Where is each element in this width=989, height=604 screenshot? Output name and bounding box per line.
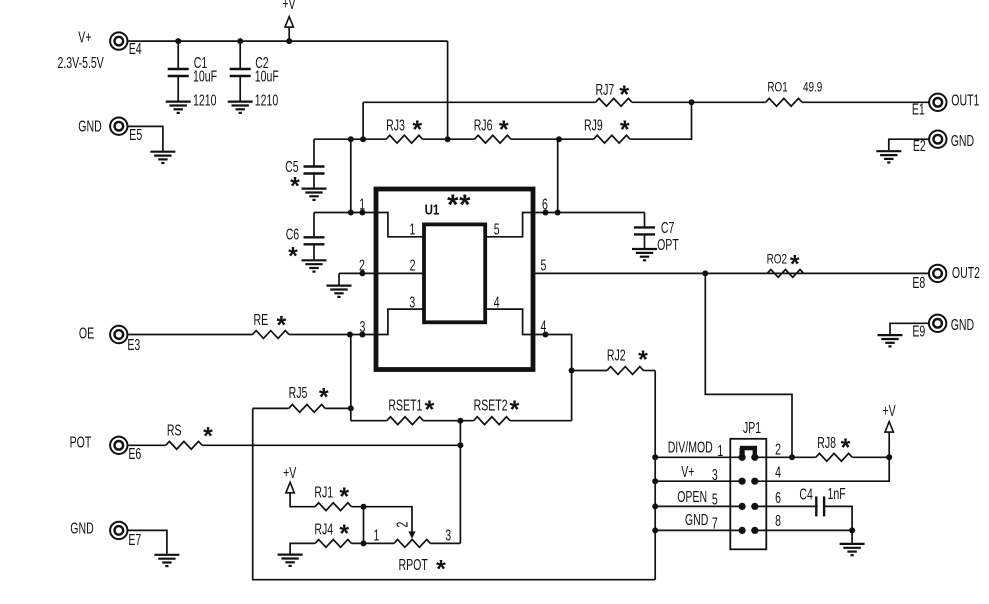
wire RSET row	[351, 420, 387, 422]
svg-text:7: 7	[712, 514, 718, 532]
wire E3 to RE	[128, 334, 252, 336]
svg-text:E1: E1	[912, 101, 925, 119]
resistor RO2	[767, 270, 804, 278]
svg-text:RJ4: RJ4	[314, 520, 333, 538]
wire RE to U1 pin3	[289, 334, 376, 336]
wire ground node drop	[851, 530, 853, 543]
svg-text:1: 1	[717, 442, 723, 460]
svg-text:C4: C4	[799, 486, 812, 504]
junction JP1 col row3	[652, 503, 658, 509]
svg-text:+V: +V	[283, 464, 296, 482]
svg-text:RJ2: RJ2	[607, 347, 626, 365]
ground RJ4	[278, 555, 303, 566]
junction JP1 col row4	[652, 527, 658, 533]
wire RJ3 to RJ6	[423, 138, 475, 140]
wire pin6 row	[533, 212, 645, 214]
svg-text:RPOT: RPOT	[399, 556, 428, 574]
resistor RO1 49.9	[766, 98, 803, 106]
svg-text:RE: RE	[254, 311, 269, 329]
wire RSET node drop to RPOT	[459, 421, 461, 544]
svg-text:RSET2: RSET2	[474, 396, 508, 414]
junction pin6 riser node	[556, 136, 562, 142]
svg-text:10uF: 10uF	[193, 67, 217, 85]
junction RJ4 node	[361, 540, 367, 546]
svg-text:*: *	[290, 173, 300, 201]
JP1 pin dots row 2	[739, 478, 746, 485]
svg-text:E8: E8	[912, 274, 925, 292]
svg-text:1: 1	[409, 220, 415, 238]
svg-text:*: *	[447, 189, 459, 221]
terminal E2 GND	[929, 131, 946, 148]
wire RJ1 to wiper	[352, 507, 413, 532]
svg-text:+V: +V	[883, 402, 896, 420]
svg-text:3: 3	[360, 318, 366, 336]
U1 internal wire pin3	[376, 309, 424, 334]
ground C2	[228, 102, 253, 113]
junction RJ3 row at x363	[360, 136, 366, 142]
wire E7 to ground	[128, 530, 167, 553]
wire E9 to ground	[890, 323, 928, 334]
svg-text:2: 2	[410, 256, 416, 274]
junction on rail at C2	[237, 38, 243, 44]
wire C4 to ground node	[824, 506, 852, 530]
svg-text:C6: C6	[286, 225, 299, 243]
wire RJ7 to RO1 node	[632, 101, 766, 103]
terminal E1 OUT1	[929, 94, 946, 111]
svg-text:E7: E7	[128, 531, 141, 549]
wire pin4 row	[533, 335, 572, 421]
junction RSET node	[457, 418, 463, 424]
junction pin1 row x350	[348, 210, 354, 216]
svg-text:*: *	[619, 81, 629, 109]
capacitor C4	[816, 496, 824, 516]
svg-text:*: *	[620, 116, 630, 144]
svg-text:E4: E4	[129, 40, 142, 58]
svg-text:*: *	[499, 116, 509, 144]
svg-text:GND: GND	[951, 316, 974, 334]
resistor RSET1	[387, 417, 424, 425]
wire RJ4 to RPOT	[352, 542, 394, 544]
svg-text:*: *	[638, 346, 648, 374]
capacitor C5	[313, 139, 315, 166]
wire RPOT to RSET drop	[430, 542, 460, 544]
wire E5 to ground	[128, 126, 163, 150]
pin dot U1 pin3	[359, 332, 365, 338]
wire bottom loop	[253, 408, 656, 579]
capacitor C2	[239, 41, 241, 69]
terminal E7 GND	[110, 522, 127, 539]
ground E7	[154, 555, 179, 566]
svg-text:RJ5: RJ5	[289, 384, 308, 402]
svg-text:2.3V-5.5V: 2.3V-5.5V	[58, 54, 104, 72]
svg-text:RJ6: RJ6	[474, 117, 493, 135]
terminal E8 OUT2	[929, 265, 946, 282]
ground E2	[876, 151, 901, 162]
resistor RS	[166, 441, 203, 449]
svg-text:5: 5	[494, 220, 500, 238]
svg-text:V+: V+	[681, 463, 694, 481]
power +V top	[288, 27, 290, 41]
svg-text:2: 2	[359, 257, 365, 275]
RPOT wiper arrow	[408, 531, 415, 538]
svg-text:49.9: 49.9	[803, 80, 822, 95]
wire V+ rail drop to RJ3 node	[447, 41, 449, 139]
resistor RJ4	[315, 540, 352, 548]
svg-text:OUT1: OUT1	[951, 92, 979, 110]
svg-text:4: 4	[775, 464, 781, 482]
svg-text:E6: E6	[128, 445, 141, 463]
wire E2 to ground	[889, 139, 929, 150]
svg-text:OE: OE	[79, 324, 94, 342]
U1 internal wire pin4	[485, 309, 533, 334]
svg-text:*: *	[319, 384, 329, 412]
wire pin5 row OUT2	[533, 272, 929, 274]
wire JP1 row3 right to C4	[755, 505, 818, 507]
svg-text:OUT2: OUT2	[952, 264, 980, 282]
svg-text:3: 3	[409, 293, 415, 311]
wire RJ9 to RJ7 right riser	[630, 102, 691, 139]
potentiometer RPOT	[394, 540, 431, 548]
terminal E3 OE	[110, 326, 127, 343]
junction OUT2 branch	[702, 270, 708, 276]
wire JP1 row2 left V+	[655, 480, 742, 482]
wire RSET1 to RSET2	[423, 420, 473, 422]
junction RJ5 node	[348, 405, 354, 411]
U1 internal wire pin1	[376, 213, 424, 237]
junction pin6 riser	[555, 210, 561, 216]
junction RJ2 branch	[569, 368, 575, 374]
junction JP1 col row1	[652, 454, 658, 460]
capacitor C6	[313, 213, 315, 238]
svg-text:RJ9: RJ9	[584, 117, 603, 135]
svg-text:3: 3	[712, 466, 718, 484]
junction C4 ground node	[849, 527, 855, 533]
U1 inner box	[424, 224, 485, 322]
wire JP1 row1 left DIV/MOD	[655, 456, 742, 458]
svg-text:V+: V+	[78, 29, 91, 47]
wire JP1 row1 right to RJ8	[755, 456, 816, 458]
svg-text:*: *	[790, 251, 800, 279]
svg-text:E3: E3	[127, 336, 140, 354]
junction on rail at C1	[175, 38, 181, 44]
wire JP1 row4 left GND	[655, 529, 742, 531]
junction RO1 node	[689, 99, 695, 105]
wire RJ6 to RJ9	[511, 138, 594, 140]
svg-text:GND: GND	[951, 132, 974, 150]
wire RJ3 row from C5	[314, 138, 386, 140]
capacitor C7	[644, 213, 646, 228]
pin dot U1 pin4	[543, 332, 549, 338]
svg-text:JP1: JP1	[743, 419, 761, 437]
ground E9	[878, 335, 903, 346]
ground C5	[302, 189, 327, 200]
svg-text:*: *	[339, 520, 349, 548]
wire +V to RJ1	[290, 493, 315, 507]
ground C6	[302, 260, 327, 271]
resistor RJ2	[607, 367, 644, 375]
svg-text:GND: GND	[78, 118, 101, 136]
wire RJ5 row	[253, 407, 289, 409]
pin dot U1 pin2	[359, 270, 365, 276]
junction POT row	[457, 442, 463, 448]
svg-text:DIV/MOD: DIV/MOD	[668, 438, 713, 456]
svg-text:2: 2	[393, 522, 411, 528]
svg-text:RO1: RO1	[767, 80, 787, 95]
svg-text:*: *	[459, 189, 471, 221]
connector JP1 box	[730, 439, 766, 550]
wire RO1 to E1	[802, 101, 929, 103]
wire RJ1-RJ4 link	[363, 507, 365, 544]
wire RS to RSET node drop	[202, 444, 460, 446]
wire pin2 row	[339, 272, 424, 274]
svg-text:POT: POT	[70, 434, 92, 452]
svg-text:RJ7: RJ7	[596, 81, 615, 99]
wire riser pin6 to RJ9 row	[557, 139, 559, 212]
svg-text:RJ3: RJ3	[386, 117, 405, 135]
resistor RJ3	[386, 135, 423, 143]
jumper on JP1 pins 1-2	[740, 446, 757, 457]
svg-text:8: 8	[775, 512, 781, 530]
wire RJ8 to +V node	[852, 456, 889, 458]
wire RJ2 wiring	[572, 370, 607, 372]
terminal E9 GND	[929, 315, 946, 332]
svg-text:1: 1	[374, 526, 380, 544]
svg-text:OPEN: OPEN	[677, 488, 707, 506]
junction RJ3 row at x350	[348, 136, 354, 142]
svg-text:2: 2	[775, 441, 781, 459]
resistor RJ1	[315, 503, 352, 511]
ground C7	[632, 249, 657, 260]
wire pin2 to ground	[338, 273, 340, 284]
ground C4	[840, 544, 865, 555]
svg-text:RJ1: RJ1	[314, 483, 333, 501]
wire E6 to RS	[128, 444, 165, 446]
wire OUT2 branch to JP1 pin2	[705, 273, 792, 457]
resistor RSET2	[474, 417, 511, 425]
JP1 pin dots row 3	[739, 503, 746, 510]
svg-text:*: *	[841, 434, 851, 462]
svg-text:6: 6	[775, 489, 781, 507]
U1 internal wire pin5	[485, 213, 533, 237]
svg-text:*: *	[339, 483, 349, 511]
wire RJ7 row	[363, 101, 595, 103]
ground E5	[150, 152, 175, 163]
junction on rail at +V	[286, 38, 292, 44]
resistor RJ9	[594, 135, 631, 143]
svg-text:+V: +V	[282, 0, 295, 12]
capacitor C1	[177, 41, 179, 69]
svg-text:10uF: 10uF	[255, 67, 279, 85]
svg-text:RS: RS	[167, 422, 182, 440]
wire +V node to JP1 pin4	[755, 457, 889, 481]
svg-text:3: 3	[445, 526, 451, 544]
svg-text:5: 5	[712, 491, 718, 509]
svg-text:1210: 1210	[255, 91, 278, 109]
pin dot U1 pin1	[359, 210, 365, 216]
wire JP1 row4 right	[755, 529, 852, 531]
svg-text:U1: U1	[425, 201, 440, 218]
wire RJ5 to riser	[325, 407, 351, 409]
ground C1	[166, 102, 191, 113]
JP1 pin dots row 4	[739, 527, 746, 534]
resistor RJ5	[289, 405, 326, 413]
wire riser pin3 to RJ5	[350, 335, 352, 421]
svg-text:RJ8: RJ8	[817, 434, 836, 452]
svg-text:4: 4	[494, 293, 500, 311]
junction JP1 col row2	[652, 478, 658, 484]
pin dot U1 pin6	[543, 210, 549, 216]
wire V+ rail from E4	[128, 40, 447, 42]
svg-text:C7: C7	[661, 219, 674, 237]
terminal E6 POT	[110, 437, 127, 454]
svg-text:E9: E9	[912, 322, 925, 340]
svg-text:*: *	[203, 423, 213, 451]
junction RJ8 +V node	[886, 454, 892, 460]
svg-text:RSET1: RSET1	[388, 396, 422, 414]
resistor RJ6	[475, 135, 512, 143]
wire JP1 row3 left OPEN	[655, 505, 742, 507]
junction pin3 row	[347, 332, 353, 338]
junction JP1 pin2 node	[789, 454, 795, 460]
junction rail drop node	[445, 136, 451, 142]
svg-text:OPT: OPT	[657, 236, 679, 254]
svg-text:*: *	[288, 242, 298, 270]
terminal E5	[110, 118, 127, 135]
op-amp U1 outer box	[376, 189, 533, 370]
wire pin1 row	[314, 212, 376, 214]
wire riser RJ3 row to pin1 row	[350, 139, 352, 212]
svg-text:E5: E5	[129, 126, 142, 144]
junction RJ1 node	[361, 504, 367, 510]
resistor RE	[253, 331, 290, 339]
wire RJ7 drop to RJ3 row	[362, 102, 364, 139]
svg-text:RO2: RO2	[767, 251, 788, 267]
wire RSET2 to pin4 drop	[510, 420, 571, 422]
wire RJ2 drop to JP1 column	[654, 371, 656, 580]
svg-text:1210: 1210	[193, 91, 216, 109]
terminal E4	[110, 32, 127, 49]
wire ground to RJ4	[290, 543, 315, 553]
svg-text:GND: GND	[70, 520, 93, 538]
ground pin2	[327, 286, 352, 297]
resistor RJ8	[816, 453, 853, 461]
svg-text:5: 5	[541, 256, 547, 274]
svg-text:GND: GND	[685, 511, 708, 529]
resistor RJ7	[596, 98, 633, 106]
svg-text:1: 1	[359, 195, 365, 213]
JP1 pin dots row 1	[739, 454, 746, 461]
svg-text:*: *	[277, 312, 287, 340]
svg-text:*: *	[412, 116, 422, 144]
svg-text:1nF: 1nF	[828, 485, 846, 503]
